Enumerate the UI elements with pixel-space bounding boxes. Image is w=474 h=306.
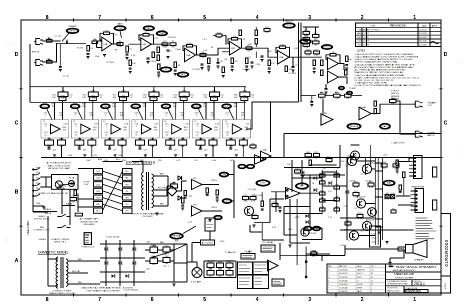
emitter resistor R99 (393, 162, 399, 170)
capacitor C14 vertical (324, 84, 327, 94)
wire jack J1 to node A (43, 40, 61, 42)
resistor R1 68k (47, 38, 53, 42)
wire U2A out (196, 54, 213, 56)
ground band 800 (174, 155, 177, 157)
label row1 sprinkle 2 (63, 61, 297, 78)
wires T2 secondary out (68, 261, 101, 284)
resistor R26 (264, 27, 270, 34)
feedback resistor over U2B (228, 36, 242, 48)
transformer T1 primary (142, 172, 144, 210)
ground T1 frame (155, 213, 158, 215)
resistor R91 (250, 195, 256, 203)
relay K3 box (370, 226, 381, 247)
wire midline links (192, 231, 210, 262)
callout EFFECTS callout (160, 67, 172, 72)
capacitor C8 vertical (260, 56, 263, 62)
capacitor C12 (247, 57, 253, 68)
wire selector feed (78, 194, 93, 213)
capacitor C82 row1 (200, 64, 203, 70)
capacitor C10 dark (347, 91, 353, 95)
capacitor C70 (261, 209, 264, 210)
resistor R85 (226, 269, 233, 278)
note block right (416, 218, 437, 239)
wire band 100 bus tap (84, 102, 86, 119)
capacitor C1 (59, 67, 62, 68)
label AC note lines (47, 162, 72, 170)
diode D1 (178, 176, 182, 180)
resistor R24 (213, 32, 226, 39)
wire callout LOW leader (120, 31, 122, 38)
wires filter caps (145, 244, 174, 282)
wire U4A out (339, 77, 348, 84)
op-amp U8A band 400 (135, 124, 159, 137)
callout fader 1.6KHz (192, 104, 208, 109)
callout REVERB small (177, 72, 189, 77)
bus labels +16V -16V (68, 155, 147, 158)
transistor Q4 driver (362, 164, 371, 173)
bus wires vertical pair (299, 23, 302, 103)
resistor R35 hanging (313, 60, 316, 74)
diode D2 (178, 196, 182, 200)
callout REVERB dark (347, 123, 361, 129)
label T1 (131, 213, 164, 219)
resistor R66 (305, 152, 312, 160)
resistor R105 vertical (396, 160, 399, 166)
capacitor C83 (278, 207, 281, 213)
transistor Q1 reverb driver (351, 151, 360, 160)
label bridge diodes (106, 237, 139, 292)
capacitor C29 band 800 lower-left (166, 138, 175, 148)
capacitor C68 (216, 190, 219, 202)
wire rails to preamp (78, 162, 143, 173)
resistor R67 (314, 152, 320, 160)
ground output (385, 242, 388, 244)
resistor R6 (117, 41, 123, 48)
filter capacitor C64 (150, 256, 158, 266)
transformer T2 core (61, 257, 63, 288)
capacitor bank C73 (238, 275, 253, 289)
callout PRESENCE (300, 39, 312, 44)
capacitor C38 band 3.2K lower-right (239, 138, 247, 148)
callout fader 100Hz (70, 104, 86, 109)
wire node A to C2 (57, 43, 87, 45)
ground at U1A (103, 55, 106, 57)
wire right column (396, 158, 414, 205)
resistor R61 (319, 92, 326, 100)
capacitor C77 (301, 172, 304, 178)
wire band 1.6K fader drop (199, 87, 215, 120)
label band 5 lower values (169, 138, 185, 140)
EQ input bus wire (30, 86, 246, 88)
bridge diamond CR1 (167, 183, 177, 196)
wire reverb feed (301, 95, 316, 97)
label supply bus row (86, 160, 235, 162)
op-amp U9A summing (261, 149, 272, 161)
callout fader 800Hz (161, 104, 177, 109)
supply rail verticals (375, 158, 382, 246)
wire U9B input drop (322, 99, 324, 114)
feedback cap C6 over U2A (183, 43, 197, 55)
label T2 (49, 291, 76, 296)
resistor R103 33 5W (357, 213, 363, 220)
transistor Q2 (244, 206, 253, 215)
resistor R91 band 3.2K second (234, 94, 255, 100)
transistor Q9 (301, 228, 309, 236)
ground band 100 (83, 155, 86, 157)
wire band 1.6K bus tap (205, 102, 207, 119)
capacitor C36 band 800 lower-right (179, 138, 187, 148)
resistor R81 band 1.6K second (204, 94, 225, 100)
switch row mid (34, 225, 71, 231)
resistor R30 vertical (346, 56, 353, 62)
EQ module box band 400 (132, 120, 160, 139)
label crossover values (207, 261, 233, 263)
transformer T1 secondary (152, 174, 154, 208)
ground pa mid (288, 245, 291, 247)
capacitor C43 band 800 bypass (169, 148, 178, 152)
resistor R106 vertical (403, 172, 406, 178)
op-amp U9A band 800 (165, 124, 189, 137)
transistor Q7 output (349, 231, 358, 240)
wire band 800 bus tap (175, 102, 177, 119)
document number strip 01RGR2000 (441, 214, 451, 294)
wire band 400 fader drop (138, 87, 154, 120)
label reverb mix block (391, 91, 401, 101)
wire band 100 to caps (79, 138, 92, 158)
resistor R107 (311, 250, 317, 255)
label band 2 feedback parts (73, 113, 99, 126)
wire band 1.6K to caps (201, 138, 214, 158)
resistor R2 68k (47, 59, 53, 63)
capacitor C30 band 1.6K lower-left (196, 138, 205, 148)
capacitor C41 band 200 bypass (108, 148, 117, 152)
rotary selector contacts SW2 (33, 167, 41, 197)
terminal strip dark box (84, 233, 91, 245)
ground band 200 (114, 155, 117, 157)
capacitor C9 dark (339, 86, 345, 90)
label POWER note (58, 186, 66, 191)
resistor R100 (311, 250, 317, 258)
label DOMESTIC lead note (45, 208, 52, 215)
feedback over U3B (326, 52, 340, 64)
resistor R102 right edge (433, 200, 437, 210)
resistor R32 hanging (174, 62, 181, 76)
label misc mid (191, 241, 236, 284)
wire amp out stage (300, 175, 345, 228)
callout +16V dark (219, 172, 229, 177)
dark box TS3 (201, 240, 215, 245)
callout fader 50Hz (40, 104, 56, 109)
callout SPKR callout (296, 183, 309, 189)
EQ lower bus wire (30, 101, 246, 103)
callout MASTER VOLUME (283, 20, 296, 28)
callout fader 400Hz (131, 104, 147, 109)
label band 1 feedback parts (43, 113, 69, 126)
wire pa mesh 3 (284, 145, 340, 192)
label band 4 feedback parts (134, 113, 160, 126)
resistor R84 (217, 269, 224, 278)
resistor R12 (246, 45, 252, 52)
label pa semiconductors (344, 156, 378, 232)
resistor R93 vertical (261, 201, 264, 207)
wire band 100 fader drop (77, 87, 93, 120)
capacitor bank C71 (238, 262, 253, 275)
capacitor C4 (125, 54, 128, 60)
resistor R31 hanging (129, 60, 137, 74)
label top voltages (112, 30, 252, 52)
input jack J2 (32, 52, 43, 66)
callout TREBLE EQ (156, 31, 167, 36)
label band 7 feedback parts (224, 113, 250, 126)
EQ module box band 100 (71, 120, 99, 139)
wire rails right (145, 244, 187, 282)
resistor R90 band 3.2K top (240, 90, 250, 99)
wire U2B vertical feeds (222, 35, 256, 58)
resistor stack R64 (374, 101, 377, 114)
transformer T2 secondary (66, 259, 68, 286)
capacitor bank C74 (253, 275, 269, 289)
ground band 1.6K (204, 155, 207, 157)
resistor grid R17 (313, 33, 320, 40)
resistor R63 (345, 93, 352, 100)
callout CHORUS dark (380, 123, 391, 129)
wire to U3A (262, 48, 278, 57)
diode D12 (313, 176, 316, 180)
resistor R25 vertical (245, 58, 248, 72)
wire U1A input stub (97, 41, 102, 48)
capacitor C75 (396, 168, 399, 173)
diode D18 (345, 190, 348, 194)
resistor R110 vertical (309, 160, 312, 166)
wires under rotary selector (33, 189, 75, 225)
resistor R90 (243, 195, 249, 203)
op-amp U3B upper (328, 58, 339, 70)
capacitor C79 vertical (399, 185, 402, 193)
label pa left (248, 189, 294, 231)
resistor R41 band 100 second (82, 94, 103, 100)
wire bridge feeds (153, 181, 187, 196)
callout -16V dark (222, 199, 232, 204)
selector cross wires (103, 171, 123, 211)
label row1 sprinkle (54, 35, 298, 66)
wire band 200 to caps (110, 138, 123, 158)
capacitor C45 band 3.2K bypass (229, 148, 238, 152)
ground bridge (172, 284, 175, 286)
op-amp U4A lower (328, 71, 339, 83)
thermal switch TS1 (70, 196, 77, 204)
transistor Q5 output (356, 199, 365, 208)
resistor R29 (314, 49, 320, 56)
callout dark pair output (304, 226, 321, 235)
capacitor C44 band 1.6K bypass (199, 148, 208, 152)
capacitor C40 band 100 bypass (78, 148, 87, 152)
input jack J1 (34, 39, 43, 45)
label band 5 feedback parts (164, 113, 190, 126)
wire band 3.2K to caps (231, 138, 244, 158)
wire band 50 bus tap (54, 102, 56, 119)
resistor R50 band 200 top (119, 90, 129, 99)
resistor R81 (217, 261, 224, 270)
wire diag to bridge (150, 226, 196, 258)
op-amp U3A (278, 51, 290, 65)
wire bottom rails (174, 244, 187, 282)
wire speaker return (388, 249, 404, 265)
op-amp U2B (230, 42, 241, 56)
label pa voltages (303, 155, 388, 248)
callout fader 3.2KHz (222, 104, 238, 109)
capacitor C42 band 400 bypass (138, 148, 147, 152)
resistor grid R16 (303, 42, 310, 49)
op-amp U11 front end (255, 155, 266, 164)
thermal table TB3 (241, 252, 255, 259)
resistor R113 (272, 202, 278, 209)
op-amp U6A band 100 (74, 124, 98, 137)
note block mains (80, 218, 99, 226)
capacitor C7 (207, 66, 210, 71)
EQ bottom bus wire (41, 157, 441, 159)
wire rail rungs (375, 163, 382, 227)
resistor R82 (226, 261, 233, 270)
vertical wire node A down (59, 44, 61, 66)
diode ladder D11 (334, 170, 340, 214)
EQ input bus riser (29, 44, 31, 102)
label band 6 feedback parts (194, 113, 220, 126)
label EXPORT MODELS (126, 161, 156, 165)
resistor R111 vert row1 (239, 30, 242, 36)
feedback resistor R5 over U1A (100, 30, 114, 44)
title block (327, 264, 441, 293)
resistor ladder R94 (320, 170, 326, 214)
power amp boundary wire (284, 134, 441, 158)
label pa resistors (322, 168, 371, 183)
sheet border frame (21, 20, 441, 295)
callout dark pair bias (238, 164, 255, 168)
capacitor C26 band 100 lower-left (75, 138, 84, 148)
wire U3B out (339, 64, 345, 71)
transistor Q3 driver (347, 156, 356, 165)
wire Q2 network (252, 192, 270, 227)
wire lamp feed (187, 262, 197, 268)
wire R61-R63 row (325, 95, 362, 97)
label filter caps (163, 254, 170, 268)
capacitor bank C72 (253, 262, 269, 275)
wire bus drop x270 (270, 102, 272, 152)
callout THERMAL dark (170, 233, 184, 243)
switch row lower (38, 239, 69, 244)
wire band 400 bus tap (144, 102, 146, 119)
label band 7 lower values (229, 138, 245, 140)
node A junction (56, 43, 57, 44)
transformer T1 core (147, 172, 149, 210)
resistor R60 band 400 top (149, 90, 159, 99)
wire mesh pa 2 (310, 165, 347, 228)
EQ module box band 50 (41, 120, 69, 139)
capacitor C65 (163, 245, 170, 254)
capacitor C2 coupling (66, 40, 69, 44)
callout BIAS dark (383, 180, 395, 186)
resistor R4 (92, 39, 98, 43)
wire rise to U2B (212, 48, 230, 55)
resistor R62 (334, 92, 341, 100)
wire selector feeds (40, 177, 68, 187)
wire Q1 branch (351, 145, 371, 175)
capacitor C28 band 400 lower-left (135, 138, 144, 148)
wire bus join x298 (271, 101, 299, 103)
wire band 50 to caps (49, 138, 62, 158)
fuse F1 holder (69, 177, 75, 187)
resistor R40 band 100 top (88, 90, 98, 99)
EQ module box band 800 (162, 120, 190, 139)
wire crossover bus (204, 261, 236, 278)
resistor R34 hanging (268, 60, 276, 74)
capacitor C3 to ground (86, 54, 89, 59)
resistor R11 vertical (208, 58, 211, 64)
transistor Q6 output (362, 221, 371, 230)
EQ module box band 3.2K (223, 120, 251, 139)
wire U3A out right (289, 56, 322, 58)
wire pa left mesh (250, 192, 284, 240)
wire output node (340, 158, 414, 241)
capacitor C35 band 400 lower-right (148, 138, 156, 148)
capacitor C62 filter (206, 188, 209, 196)
capacitor C67 supply (181, 198, 184, 210)
callout GND dark (214, 215, 222, 219)
op-amp VR2 regulator (192, 205, 203, 217)
label supply voltages (188, 180, 218, 224)
ground band 400 (144, 155, 147, 157)
resistor R101 right edge (433, 167, 437, 177)
capacitor C5 vertical (167, 50, 174, 53)
wire speaker leads (398, 247, 406, 251)
capacitor C34 band 200 lower-right (118, 138, 126, 148)
capacitor C25 band 50 lower-left (45, 138, 54, 148)
resistor grid R14 (303, 30, 310, 37)
wire band 800 fader drop (168, 87, 184, 120)
resistor R108 (326, 157, 332, 164)
callout fader 200Hz (101, 104, 117, 109)
resistor R80 band 1.6K top (210, 90, 220, 99)
wire jack J2 to node A riser (43, 44, 57, 62)
connector P1 (409, 156, 422, 179)
resistor grid R15 (303, 36, 310, 43)
relay K2 box (272, 279, 284, 286)
fuse F2 F3 pair (385, 193, 395, 199)
notes text block (355, 50, 422, 88)
wire band 50 fader drop (47, 87, 63, 120)
capacitor C11 vertical (216, 58, 224, 68)
speaker LS1 (406, 240, 428, 262)
capacitor C50 vertical (310, 96, 313, 107)
resistor R19 vertical (321, 60, 324, 76)
transformer T2 primary (56, 257, 58, 288)
label secondary colors (72, 259, 83, 284)
callout INPUT LEVEL (66, 25, 79, 34)
capacitor C81 row1 (146, 58, 149, 64)
capacitor C33 band 100 lower-right (88, 138, 96, 148)
wire band 400 to caps (140, 138, 153, 158)
resistor R97 (353, 191, 359, 199)
rotary selector wafer (55, 181, 62, 190)
op-amp U10A band 1.6K (195, 124, 219, 137)
resistor R80 (207, 261, 214, 270)
resistor R60 (250, 143, 256, 150)
bridge rectifier diodes D3-D10 (104, 247, 135, 278)
wire band 3.2K bus tap (235, 102, 237, 119)
resistor R8 vertical chain (157, 47, 160, 61)
label pa extra (287, 164, 348, 219)
op-amp U5A band 50 (44, 124, 68, 137)
capacitor C13 hanging (291, 57, 299, 72)
